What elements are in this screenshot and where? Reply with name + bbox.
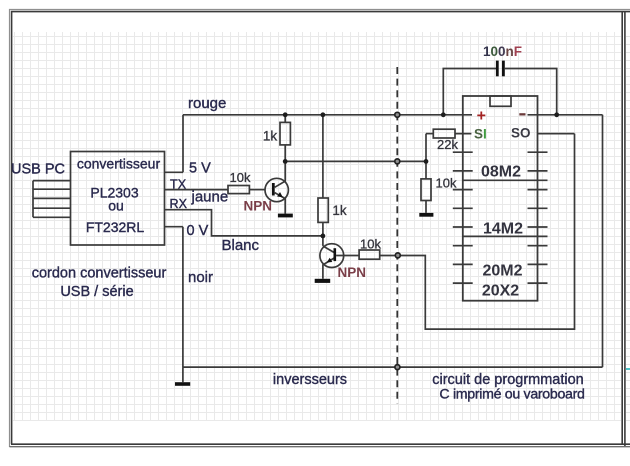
wire 5V riser (182, 115, 184, 173)
resistor R3 1k vertical (322, 115, 324, 198)
svg-text:1k: 1k (263, 129, 278, 144)
IC internal line 14M2 (463, 235, 548, 237)
wire 5V stub (165, 171, 184, 173)
node D bottom rail crossing (395, 365, 400, 370)
grid sliver right of frame (626, 32, 630, 421)
wire 0V stub (165, 226, 183, 228)
junction dots (283, 112, 559, 238)
svg-text:ou: ou (108, 198, 124, 214)
node: rail/R2 (283, 112, 288, 117)
svg-text:10k: 10k (230, 170, 251, 185)
transistor Q1 (265, 178, 288, 201)
node: 22k/10k junction (424, 159, 429, 164)
node: minus/C1 right (554, 112, 559, 117)
wire RX (165, 210, 323, 236)
wire collector rail to 22k junction (285, 160, 426, 162)
wire 0V bottom rail (183, 366, 603, 368)
wire minus pin (528, 114, 603, 116)
IC internal line 08M2 (463, 179, 548, 181)
wire TX (165, 189, 229, 191)
wire R5 to SI pin (455, 133, 471, 135)
node: rail/C1 left (441, 112, 446, 117)
svg-text:14M2: 14M2 (483, 221, 523, 238)
svg-text:C imprimé ou varoboard: C imprimé ou varoboard (439, 386, 584, 402)
IC U2 body (463, 96, 538, 301)
svg-text:cordon convertisseur: cordon convertisseur (32, 266, 167, 282)
svg-text:10k: 10k (436, 176, 457, 191)
svg-text:Blanc: Blanc (222, 237, 260, 254)
capacitor C1 plates (496, 61, 499, 77)
node B collector rail crossing (395, 159, 400, 164)
wire junction to 10k (425, 161, 427, 179)
Q1 base bar (272, 183, 275, 196)
svg-text:08M2: 08M2 (481, 164, 521, 181)
node: rail/R3 (321, 112, 326, 117)
resistor R6 10k vertical (421, 179, 431, 201)
svg-text:jaune: jaune (191, 188, 229, 205)
IC notch (490, 96, 511, 106)
open node circles on dashed line (395, 112, 401, 369)
resistor R1 10k (228, 186, 249, 194)
node A rouge crossing (395, 112, 400, 117)
svg-text:RX: RX (170, 197, 188, 211)
svg-text:inversseurs: inversseurs (273, 372, 347, 388)
svg-text:rouge: rouge (188, 95, 226, 112)
svg-text:100nF: 100nF (483, 44, 522, 59)
wire right riser to minus (602, 115, 604, 367)
wire R1 to Q1 base (249, 189, 265, 191)
wire SO pin (538, 133, 575, 135)
wire 22k drop (425, 134, 427, 162)
Q1 emitter (275, 193, 286, 214)
cyan tick on right sliver (626, 368, 630, 370)
svg-text:TX: TX (170, 177, 187, 191)
Q2 collector (323, 246, 335, 253)
ground stub left (182, 367, 184, 382)
svg-text:noir: noir (188, 269, 213, 286)
text minus pin (519, 113, 525, 115)
Q2 base bar (334, 248, 337, 261)
IC pin ticks right (528, 152, 548, 283)
svg-text:20M2: 20M2 (482, 263, 522, 280)
node: RX/R3 junction (321, 234, 326, 239)
ground symbol G2 (Q1 emitter) (278, 214, 293, 218)
svg-text:1k: 1k (332, 203, 347, 218)
svg-text:22k: 22k (437, 137, 458, 152)
svg-text:SI: SI (474, 127, 487, 142)
Q2 emitter arrow (327, 258, 333, 263)
wire noir (182, 227, 184, 367)
svg-text:convertisseur: convertisseur (77, 156, 161, 172)
svg-text:NPN: NPN (338, 265, 367, 280)
wire Q2 base (336, 255, 359, 257)
IC pin ticks left (453, 152, 473, 283)
svg-text:USB PC: USB PC (11, 162, 65, 178)
ground symbol G1 (converter 0V) (175, 382, 190, 386)
USB PC connector ladder (33, 181, 71, 218)
node: collector rail left (283, 159, 288, 164)
adjacent frame edge right (624, 11, 626, 446)
Q1 collector (275, 161, 286, 187)
capacitor C1 wire right (505, 69, 557, 115)
converter box U1 (71, 152, 165, 246)
svg-text:+: + (477, 108, 486, 125)
Q1 emitter arrow (277, 192, 283, 197)
ground symbol G4 (10k pulldown) (419, 213, 433, 217)
resistor R5 22k (433, 129, 455, 138)
svg-text:NPN: NPN (244, 199, 273, 214)
svg-text:20X2: 20X2 (482, 283, 519, 300)
wire SI from 22k (426, 133, 433, 135)
capacitor C1 wire left (443, 69, 496, 115)
dashed separator line (396, 67, 398, 404)
svg-text:FT232RL: FT232RL (86, 219, 145, 235)
svg-text:10k: 10k (360, 237, 381, 252)
transistor Q2 (320, 244, 344, 268)
ground symbol G3 (Q2 emitter) (315, 279, 331, 283)
wire R4 to SO loop (380, 134, 575, 330)
svg-text:SO: SO (511, 126, 531, 141)
wire rouge 5V rail (183, 114, 472, 116)
node C SO wire crossing (395, 253, 400, 258)
svg-text:USB / série: USB / série (60, 284, 133, 300)
resistor R4 10k (359, 250, 380, 259)
Q2 emitter (323, 258, 335, 279)
svg-text:0 V: 0 V (187, 223, 209, 239)
resistor R2 1k vertical (284, 115, 286, 123)
svg-text:5 V: 5 V (189, 161, 211, 177)
